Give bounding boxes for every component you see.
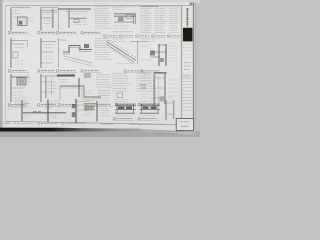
detail 18 dark block bbox=[160, 97, 165, 102]
detail 2 annotation text bbox=[44, 14, 51, 23]
detail 14 beam dark band bbox=[57, 74, 75, 76]
scanner background bbox=[0, 0, 200, 137]
detail 5 jamb box bbox=[126, 14, 132, 18]
detail 14 top-right cluster bbox=[84, 74, 91, 78]
detail 2 wall lines bbox=[40, 8, 58, 31]
detail 14 side text bbox=[86, 91, 93, 94]
below-sheet stamp text right bbox=[154, 132, 178, 134]
detail 10 bottom text bbox=[116, 63, 134, 65]
right notes label row bbox=[103, 35, 182, 38]
detail 13 annotation text bbox=[48, 86, 57, 89]
detail 19 lower text bbox=[24, 116, 31, 119]
detail 1 window box bbox=[18, 17, 28, 26]
detail 11 dark block bbox=[150, 51, 155, 56]
detail 10 stair stringer diagonals bbox=[107, 40, 149, 64]
detail 23 dense plan block bbox=[140, 104, 161, 113]
detail 21 hatch blocks bbox=[84, 106, 94, 110]
detail 8 label bbox=[56, 70, 77, 73]
frame bottom border bbox=[6, 121, 182, 124]
detail 22 dense plan block bbox=[115, 104, 136, 113]
detail 5 plan lines bbox=[114, 14, 136, 25]
above-frame faint stamp bbox=[95, 2, 106, 4]
detail 6 annotation text bbox=[15, 47, 24, 49]
detail 2 label bbox=[37, 31, 58, 34]
detail 15 label bbox=[94, 104, 113, 107]
detail 6 wall lines bbox=[10, 38, 27, 68]
detail 6 lower text bbox=[15, 61, 24, 64]
detail 23 label bbox=[138, 117, 159, 120]
detail 12 label bbox=[8, 104, 29, 107]
detail 14 label bbox=[58, 104, 79, 107]
detail 16 small box bbox=[117, 93, 123, 98]
title block divider bbox=[181, 6, 183, 125]
frame right border sheet edge bbox=[192, 3, 194, 131]
frame left border bbox=[5, 6, 7, 122]
detail 5 lower text bbox=[113, 26, 129, 29]
detail 19 hatch ticks bbox=[33, 111, 41, 113]
detail 11 annotation text bbox=[141, 39, 156, 42]
detail 6 box bbox=[13, 52, 18, 58]
detail 18 top dark bar bbox=[154, 72, 167, 73]
detail 12 window box bbox=[17, 78, 26, 85]
sheet shading overlay bbox=[3, 2, 195, 128]
right-of-sheet paper edge strip bbox=[145, 131, 196, 135]
notes column 1 bbox=[95, 7, 111, 29]
detail 11 bracket cluster bbox=[150, 44, 167, 66]
detail 16 text block bbox=[113, 74, 131, 92]
notes area top rule bbox=[112, 6, 180, 8]
notes column row3 upper bbox=[96, 75, 112, 88]
detail 8 curb step profile bbox=[58, 38, 92, 68]
notes column 2 bbox=[141, 9, 152, 33]
detail 22 hatch fills bbox=[118, 106, 132, 109]
detail 4 label bbox=[81, 31, 102, 34]
title strip registration mark bbox=[190, 2, 193, 5]
detail 22 label bbox=[113, 117, 134, 120]
detail 16 label bbox=[115, 103, 135, 106]
notes column 2 header bbox=[141, 5, 158, 7]
detail 1 window inner blob bbox=[19, 21, 22, 25]
detail 11 label bbox=[141, 70, 162, 73]
notes column 3 bbox=[155, 9, 166, 33]
detail 11 lower dark block bbox=[160, 58, 164, 62]
detail 21 annotation text bbox=[100, 101, 110, 115]
detail 7 lower text bbox=[44, 56, 54, 59]
notes column row2 bbox=[95, 39, 112, 60]
detail 21 right jamb bbox=[97, 101, 98, 122]
detail 20 lower text bbox=[51, 115, 58, 118]
frame top border bbox=[6, 5, 194, 7]
detail 14 right jamb verticals bbox=[78, 78, 81, 97]
detail 1 annotation text bbox=[13, 11, 21, 14]
detail 20b mullion jamb bbox=[76, 99, 90, 123]
footer stamp row bbox=[3, 122, 164, 124]
notes column row3 lower bbox=[98, 91, 111, 99]
detail 3 flashing box bbox=[74, 19, 79, 22]
notes column 4 bbox=[169, 9, 179, 33]
detail 21 box cluster bbox=[84, 104, 96, 111]
detail 18 left notes lower bbox=[141, 94, 149, 97]
sheet number box bbox=[176, 119, 193, 131]
detail 17 dark marks bbox=[140, 85, 146, 88]
detail 12 side notes bbox=[27, 79, 32, 82]
detail 5 hatch block bbox=[118, 17, 124, 21]
detail 9 label bbox=[81, 70, 102, 73]
detail 3 annotation text bbox=[72, 13, 86, 15]
detail 11 right notes bbox=[169, 43, 178, 61]
detail 24 jamb verticals bbox=[166, 100, 174, 120]
detail 14 parapet step bbox=[60, 86, 101, 100]
title strip revision table bbox=[182, 75, 192, 110]
title strip black box bbox=[183, 28, 193, 42]
detail 17 text block bbox=[137, 74, 155, 92]
detail 6 label bbox=[8, 70, 29, 73]
detail 14 annotation text bbox=[59, 80, 69, 83]
title strip mid text bbox=[184, 63, 191, 70]
title strip vertical text bbox=[186, 8, 188, 27]
detail 10 annotation text bbox=[113, 39, 125, 42]
title block inner divider bbox=[180, 6, 182, 125]
bottom scanner background bbox=[0, 132, 200, 138]
detail 19 sill and jamb bbox=[22, 100, 66, 121]
detail 7 wall lines bbox=[40, 38, 56, 68]
detail 10 label bbox=[124, 70, 146, 73]
bar thin continuation bbox=[142, 129, 196, 133]
left margin band bbox=[0, 0, 3, 128]
detail 1 wall lines bbox=[10, 8, 31, 31]
detail 13 label bbox=[37, 104, 58, 107]
detail 8 dark block bbox=[84, 44, 89, 48]
sheet number text bbox=[180, 122, 190, 127]
detail 1 window shelf line bbox=[14, 16, 18, 18]
detail 20 annotation text bbox=[51, 101, 60, 106]
detail 12 wall lines bbox=[10, 74, 29, 102]
detail 18 right notes bbox=[168, 80, 178, 96]
detail 19 left leader text bbox=[8, 105, 14, 110]
detail 20b attached blocks bbox=[72, 104, 75, 117]
detail 23 hatch fills bbox=[143, 106, 157, 109]
paper sheet bbox=[3, 2, 195, 128]
top margin band bbox=[0, 0, 200, 3]
detail 7 label bbox=[37, 70, 57, 73]
detail 3 lower notes bbox=[74, 21, 88, 24]
detail 12 lower text bbox=[13, 92, 25, 98]
detail 7 annotation text bbox=[44, 45, 55, 48]
revision entry text bbox=[183, 76, 190, 78]
detail 5 annotation text bbox=[113, 7, 125, 10]
detail 1 label bbox=[8, 31, 29, 34]
detail 17 label bbox=[138, 103, 158, 106]
title strip lines below box bbox=[182, 44, 192, 58]
detail 21 lower text bbox=[83, 114, 92, 116]
detail 1 side notes bbox=[28, 18, 33, 21]
detail 20 jamb tee bbox=[46, 100, 53, 123]
sheet right edge shadow bbox=[194, 2, 195, 130]
detail 3 label bbox=[56, 31, 78, 34]
detail 18 left notes bbox=[141, 75, 151, 81]
detail 13 mullion lines bbox=[40, 74, 57, 102]
bottom shadow bar bbox=[0, 128, 142, 132]
sheet lower-right extension bbox=[140, 128, 195, 132]
detail 12 window inner bbox=[19, 79, 24, 83]
detail 19 annotation text bbox=[15, 101, 28, 108]
detail 3 roof lines bbox=[58, 8, 91, 31]
detail 18 tall mullions bbox=[150, 74, 166, 106]
